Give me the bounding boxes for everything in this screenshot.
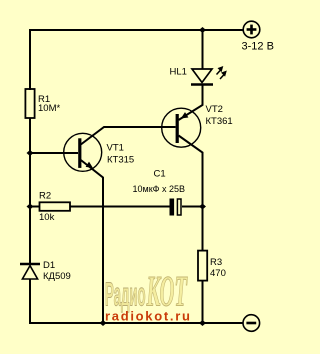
wire LED anode bbox=[202, 29, 204, 69]
label R1 value bbox=[38, 94, 60, 114]
node VT1 emitter bottom bbox=[100, 320, 107, 326]
wire left rail upper bbox=[29, 29, 31, 90]
node top rail LED branch bbox=[199, 27, 206, 33]
node bottom right junction bbox=[199, 320, 206, 326]
diode D1 bbox=[20, 264, 40, 279]
svg-text:radiokot.ru: radiokot.ru bbox=[105, 309, 192, 324]
label R3 value bbox=[210, 257, 226, 279]
wire left rail mid bbox=[29, 153, 31, 264]
wire R2 to C1 bbox=[70, 206, 170, 208]
capacitor C1 bbox=[170, 199, 182, 216]
svg-text:D1: D1 bbox=[43, 260, 55, 271]
svg-text:HL1: HL1 bbox=[170, 67, 187, 78]
svg-text:10мкФ х 25В: 10мкФ х 25В bbox=[133, 184, 186, 194]
wire R2 left lead bbox=[30, 206, 40, 208]
wire VT1 emitter down bbox=[81, 160, 103, 324]
svg-text:VT2: VT2 bbox=[206, 104, 223, 115]
wire VT1 collector to VT2 base bbox=[81, 127, 176, 145]
wire VT1 base bbox=[30, 152, 78, 154]
power terminal + bbox=[243, 21, 260, 38]
svg-text:C1: C1 bbox=[154, 169, 166, 180]
wire R3 to bottom rail bbox=[202, 281, 204, 324]
svg-text:КТ315: КТ315 bbox=[107, 155, 134, 166]
label R2 value bbox=[39, 191, 55, 224]
wire LED cathode to VT2 emitter bbox=[179, 85, 203, 121]
wire C1 to collector node bbox=[182, 206, 203, 208]
label VT1 type bbox=[107, 143, 135, 166]
svg-text:470: 470 bbox=[210, 268, 226, 279]
resistor R1 bbox=[25, 89, 34, 118]
svg-text:VT1: VT1 bbox=[107, 143, 124, 154]
resistor R3 bbox=[198, 251, 207, 281]
svg-text:КТ361: КТ361 bbox=[206, 116, 233, 127]
transistor VT2 bbox=[162, 108, 201, 147]
svg-text:10М*: 10М* bbox=[38, 103, 60, 114]
led emission arrows bbox=[217, 66, 227, 79]
svg-text:R2: R2 bbox=[39, 191, 51, 202]
wire VT2 collector down bbox=[179, 136, 203, 252]
transistor VT1 bbox=[64, 133, 102, 171]
svg-text:10k: 10k bbox=[39, 212, 55, 223]
svg-text:R3: R3 bbox=[210, 257, 222, 268]
resistor R2 bbox=[40, 202, 71, 211]
label VT2 type bbox=[206, 104, 233, 127]
wire top rail bbox=[29, 29, 243, 31]
node VT1 base junction bbox=[27, 150, 34, 156]
led HL1 bbox=[191, 69, 213, 85]
power terminal minus bbox=[243, 315, 260, 332]
wire D1 to bottom rail bbox=[29, 279, 31, 324]
wire bottom rail bbox=[29, 322, 243, 324]
wire R1 to base node bbox=[29, 118, 31, 153]
node C1 collector junction bbox=[199, 204, 206, 210]
svg-text:КД509: КД509 bbox=[43, 271, 71, 282]
svg-text:3-12 В: 3-12 В bbox=[242, 41, 274, 53]
label D1 value bbox=[43, 260, 71, 282]
node R2 junction bbox=[27, 204, 34, 210]
